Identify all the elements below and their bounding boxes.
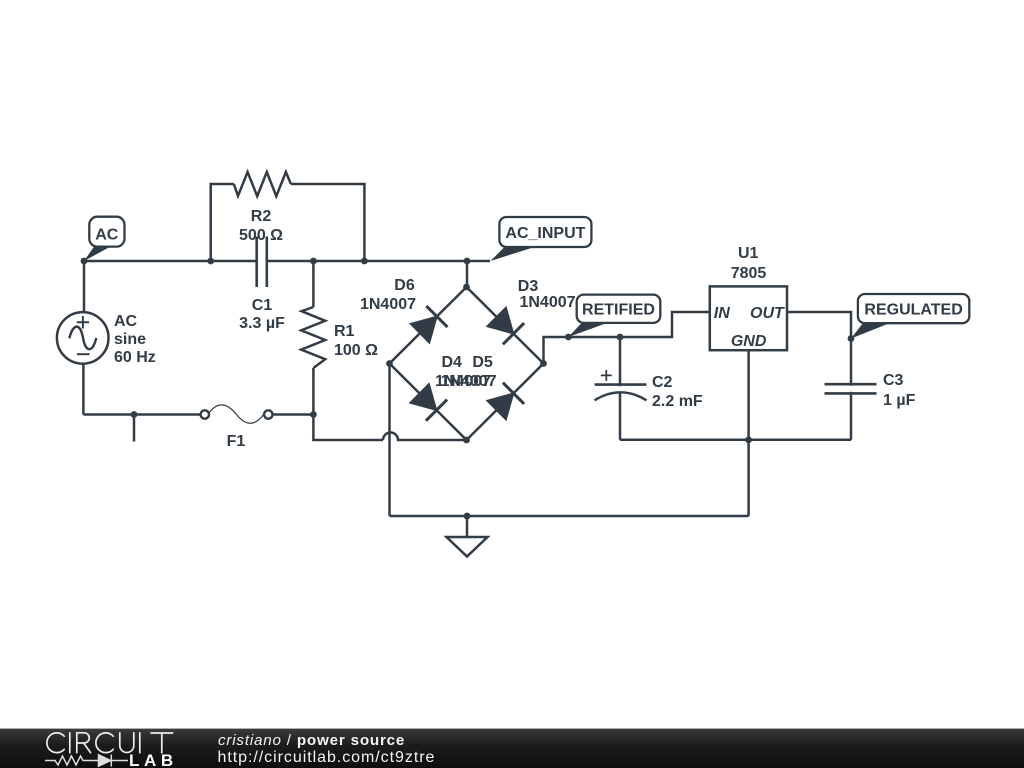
svg-text:1N4007: 1N4007 [440, 373, 496, 390]
svg-text:C2: C2 [652, 374, 673, 391]
wire bottom-left rail [83, 413, 201, 416]
node REGULATED [848, 335, 855, 342]
label D6 1N4007 [360, 277, 416, 313]
svg-text:AC_INPUT: AC_INPUT [505, 225, 585, 242]
svg-text:1N4007: 1N4007 [360, 296, 416, 313]
diode bridge diamond [390, 287, 544, 440]
wire AC source top lead [83, 261, 86, 313]
label C2 2.2 mF [652, 374, 703, 410]
wire top rail [84, 260, 490, 263]
svg-text:C3: C3 [883, 372, 904, 389]
svg-text:R2: R2 [251, 208, 272, 225]
svg-text:100 Ω: 100 Ω [334, 342, 378, 359]
node R2 left [207, 258, 214, 265]
regulator U1 box [710, 286, 787, 350]
diode D4 [410, 384, 447, 421]
node bridge bottom [463, 437, 470, 444]
label C1 3.3 uF [239, 297, 285, 332]
wire fuse to R1 bottom [273, 413, 314, 416]
flag RETIFIED [568, 295, 660, 337]
svg-text:IN: IN [714, 305, 730, 322]
node bridge top [463, 284, 470, 291]
capacitor C1 [257, 237, 267, 288]
node bottom-left [131, 411, 138, 418]
svg-text:7805: 7805 [731, 265, 767, 282]
svg-text:OUT: OUT [750, 305, 785, 322]
wire hop over ground wire [383, 433, 467, 441]
diode D3 [487, 307, 524, 344]
node R2 right [361, 258, 368, 265]
svg-text:60 Hz: 60 Hz [114, 349, 156, 366]
svg-text:F1: F1 [227, 433, 246, 450]
svg-text:http://circuitlab.com/ct9ztre: http://circuitlab.com/ct9ztre [218, 749, 436, 766]
node bridge right [540, 360, 547, 367]
wire ground rail [390, 515, 749, 518]
resistor R1 leads [312, 261, 315, 415]
svg-text:500 Ω: 500 Ω [239, 227, 283, 244]
wire U1 OUT to C3 [787, 312, 851, 386]
fuse F1 [201, 405, 273, 423]
ground symbol [447, 516, 488, 557]
svg-text:U1: U1 [738, 245, 759, 262]
wire bridge right to RETIFIED rail [544, 312, 710, 364]
svg-text:1 µF: 1 µF [883, 392, 916, 409]
svg-text:3.3 µF: 3.3 µF [239, 315, 285, 332]
svg-text:2.2 mF: 2.2 mF [652, 393, 703, 410]
resistor R1 [301, 307, 325, 368]
wire U1 GND pin [747, 350, 750, 516]
capacitor C3 bottom lead [850, 392, 853, 440]
wire bridge top lead [466, 261, 469, 287]
svg-text:C1: C1 [252, 297, 273, 314]
label C3 1 uF [883, 372, 916, 409]
svg-text:D6: D6 [394, 277, 415, 294]
node ground [464, 513, 471, 520]
svg-text:LAB: LAB [129, 751, 178, 768]
node AC_INPUT [464, 258, 471, 265]
label R2 500 ohm [239, 208, 283, 244]
capacitor C2 top lead [619, 337, 622, 386]
svg-text:R1: R1 [334, 323, 355, 340]
resistor R2 [234, 172, 291, 196]
logo doodle wire resistor diode [45, 755, 128, 767]
node R1 bottom [310, 411, 317, 418]
flag AC_INPUT [491, 217, 592, 261]
node bridge left [386, 360, 393, 367]
AC source V1 [57, 312, 109, 364]
flag AC [84, 217, 125, 261]
node C2 top [617, 334, 624, 341]
capacitor C2 bottom lead [619, 392, 622, 439]
label U1 7805 [731, 245, 767, 282]
svg-text:GND: GND [731, 333, 767, 350]
label D4 D5 [435, 354, 497, 390]
capacitor C2 polarized [595, 370, 647, 400]
diode D5 [487, 383, 524, 420]
svg-text:cristiano / power source: cristiano / power source [218, 732, 405, 749]
resistor R2 loop wires [211, 184, 365, 261]
svg-text:1N4007: 1N4007 [519, 294, 575, 311]
svg-text:D4: D4 [441, 354, 462, 371]
svg-text:D3: D3 [518, 278, 539, 295]
svg-text:D5: D5 [472, 354, 493, 371]
svg-text:AC: AC [114, 313, 138, 330]
svg-text:REGULATED: REGULATED [864, 302, 962, 319]
logo CIRCUIT [47, 733, 173, 753]
wire capacitor bottom rail [620, 439, 851, 442]
node R1 top [310, 258, 317, 265]
svg-text:AC: AC [95, 227, 119, 244]
label R1 100 ohm [334, 323, 378, 359]
svg-text:RETIFIED: RETIFIED [582, 302, 655, 319]
wire stub below node [133, 415, 136, 442]
label D3 1N4007 [518, 278, 576, 311]
wire bridge left to ground rail [388, 364, 391, 517]
label AC sine 60 Hz [114, 313, 156, 366]
svg-text:sine: sine [114, 331, 146, 348]
node GND rail [745, 436, 752, 443]
wire R1 bottom to bridge bottom [313, 415, 383, 441]
capacitor C3 [825, 384, 877, 393]
flag REGULATED [851, 294, 969, 339]
node RETIFIED [565, 334, 572, 341]
diode D6 [410, 306, 447, 343]
node top rail at AC [81, 258, 88, 265]
wire AC source bottom lead [82, 364, 85, 415]
